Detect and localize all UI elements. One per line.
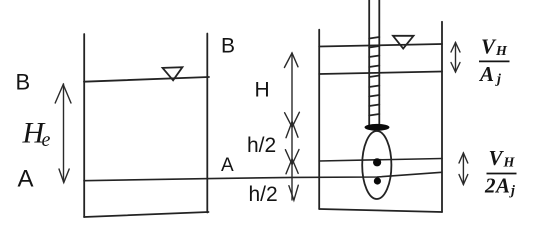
middle dimension arrow shaft xyxy=(291,53,293,200)
fraction bar lower xyxy=(487,173,517,175)
hydrometer stem right edge xyxy=(378,0,380,125)
svg-text:e: e xyxy=(42,129,51,151)
right lower double arrow shaft xyxy=(462,153,464,185)
middle arrow head h/2 lower top (up) xyxy=(286,159,298,174)
svg-text:H: H xyxy=(495,44,508,59)
hydrometer ballast collar (filled) xyxy=(365,124,390,131)
svg-text:B: B xyxy=(221,35,235,58)
svg-text:V: V xyxy=(489,146,505,170)
svg-text:A: A xyxy=(221,155,234,176)
right tank lower line above level A xyxy=(319,159,442,162)
left tank right wall xyxy=(206,34,208,213)
svg-text:h/2: h/2 xyxy=(249,183,278,206)
svg-text:H: H xyxy=(503,156,516,171)
right tank water surface nabla symbol xyxy=(393,36,414,49)
right lower arrow bottom head xyxy=(459,175,468,185)
hydrometer bulb upper dot xyxy=(373,158,381,166)
middle arrow bottom head (down) xyxy=(289,185,298,200)
fraction bar upper xyxy=(479,60,510,62)
left tank left wall xyxy=(83,34,85,217)
right upper arrow top head xyxy=(451,43,460,53)
hydrometer stem scale tick 2 xyxy=(369,46,379,48)
middle arrow head h/2 upper bottom (down) xyxy=(285,150,299,165)
svg-text:A: A xyxy=(494,174,510,198)
He arrow upper head xyxy=(55,85,71,104)
level A long line across both tanks xyxy=(84,172,442,180)
hydrometer bulb lower dot xyxy=(374,177,381,184)
right tank right wall xyxy=(441,22,443,212)
hydrometer stem left edge xyxy=(368,0,370,125)
svg-text:A: A xyxy=(18,165,34,192)
svg-text:H: H xyxy=(255,78,270,101)
right tank second line below surface xyxy=(319,72,442,75)
middle arrow head h/2 upper top (up) xyxy=(286,122,298,138)
left tank water surface line B xyxy=(84,77,209,82)
hydrometer stem scale tick 5 xyxy=(369,76,379,78)
svg-text:A: A xyxy=(478,62,494,86)
svg-text:h/2: h/2 xyxy=(247,134,276,157)
hydrometer stem scale tick 7 xyxy=(369,95,379,97)
svg-text:B: B xyxy=(16,70,31,95)
hydrometer stem scale tick 9 xyxy=(369,114,379,116)
right tank left wall xyxy=(318,30,320,209)
left tank water surface nabla symbol xyxy=(163,67,183,80)
hydrometer stem scale tick 4 xyxy=(369,66,379,68)
hydrometer stem scale tick 3 xyxy=(369,56,379,58)
right tank upper water surface line xyxy=(319,44,442,47)
He arrow lower head xyxy=(59,169,69,183)
svg-text:2: 2 xyxy=(484,174,496,198)
middle arrow head H bottom (down) xyxy=(285,112,300,127)
right upper arrow bottom head xyxy=(451,63,460,73)
hydrometer bulb xyxy=(362,131,391,199)
right tank bottom xyxy=(319,209,442,212)
right upper double arrow shaft xyxy=(455,43,457,73)
hydrometer stem scale tick 6 xyxy=(369,86,379,88)
left tank bottom xyxy=(84,212,209,217)
He dimension arrow shaft (left) xyxy=(63,84,65,182)
svg-text:V: V xyxy=(481,35,497,59)
hydrometer stem scale tick 1 xyxy=(369,37,379,39)
right lower arrow top head xyxy=(459,153,468,163)
hydrometer stem scale tick 8 xyxy=(369,105,379,107)
middle arrow top head (H top) xyxy=(284,53,298,68)
